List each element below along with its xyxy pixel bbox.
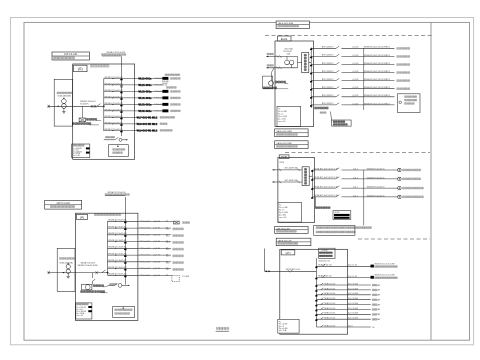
svg-text:WDZB-YJY-4x25-SC: WDZB-YJY-4x25-SC (108, 240, 127, 242)
svg-text:WDZB-YJY-5x16: WDZB-YJY-5x16 (286, 269, 300, 271)
svg-text:NDB1LE-63 C16: NDB1LE-63 C16 (318, 264, 331, 266)
svg-text:NDB1-63 C16: NDB1-63 C16 (324, 308, 335, 310)
svg-text:1.5 3kW: 1.5 3kW (182, 276, 189, 278)
svg-text:NDB1-63 C16: NDB1-63 C16 (324, 313, 335, 315)
svg-text:(L)1.36: (L)1.36 (153, 241, 160, 243)
svg-text:(L)1.0: (L)1.0 (348, 325, 353, 327)
svg-text:Kx = 0.8: Kx = 0.8 (77, 309, 83, 311)
svg-text:Kx = 0.8: Kx = 0.8 (73, 150, 79, 152)
svg-text:(L)1.1: (L)1.1 (353, 168, 358, 170)
svg-text:WL31-G01a: WL31-G01a (138, 90, 152, 93)
svg-text:(L)1.36: (L)1.36 (153, 234, 160, 236)
svg-text:WDZB-YJY-4x25-SC: WDZB-YJY-4x25-SC (105, 96, 124, 98)
svg-text:XL1: XL1 (166, 229, 169, 231)
svg-text:WL7-G01-W1 M2.2: WL7-G01-W1 M2.2 (137, 116, 158, 119)
svg-text:WDZT-AT1: WDZT-AT1 (285, 47, 294, 50)
svg-text:1AT1: 1AT1 (285, 252, 291, 255)
svg-text:(L)1.36: (L)1.36 (153, 228, 160, 230)
svg-text:(L)1.36: (L)1.36 (153, 275, 160, 277)
svg-text:B1R C65N 1P: B1R C65N 1P (322, 47, 334, 49)
svg-text:YJY-4x16: YJY-4x16 (154, 110, 163, 112)
svg-text:(L)1.36: (L)1.36 (353, 55, 359, 57)
svg-text:Pjs = 282 kW: Pjs = 282 kW (77, 311, 87, 313)
svg-text:(L)1.5 1.36: (L)1.5 1.36 (348, 265, 357, 267)
svg-text:WDZB-BYJ-3x2.5-SC15 1.36: WDZB-BYJ-3x2.5-SC15 1.36 (314, 186, 338, 188)
svg-text:NZ7-63/4P 63A: NZ7-63/4P 63A (285, 179, 298, 182)
svg-text:NDB1-63 C16: NDB1-63 C16 (324, 325, 335, 327)
svg-text:cos = 0.9: cos = 0.9 (278, 121, 285, 123)
svg-text:(L)1.36: (L)1.36 (153, 268, 160, 270)
svg-text:(L)1.1: (L)1.1 (353, 195, 358, 197)
svg-text:SCB13-630kVA: SCB13-630kVA (59, 262, 73, 265)
svg-text:WDWE-BYJ-3x2.5-SC15 WE/CC: WDWE-BYJ-3x2.5-SC15 WE/CC (364, 47, 391, 49)
svg-text:YJY-5x6-SC: YJY-5x6-SC (139, 255, 151, 257)
svg-text:XL3: XL3 (166, 242, 169, 244)
svg-text:WDZB-YJY-4x25-SC: WDZB-YJY-4x25-SC (108, 254, 127, 256)
svg-text:cos = 0.9: cos = 0.9 (77, 315, 84, 317)
svg-text:YJY-5x6-SC: YJY-5x6-SC (139, 234, 151, 236)
svg-text:ELA1: ELA1 (281, 37, 288, 41)
svg-text:YJY-5x6-SC: YJY-5x6-SC (139, 261, 151, 263)
svg-text:(L)1.36: (L)1.36 (153, 255, 160, 257)
svg-text:WL8-G01-W1 M2.2: WL8-G01-W1 M2.2 (137, 123, 158, 126)
svg-text:(L)1.0 0.5kW: (L)1.0 0.5kW (348, 293, 358, 295)
svg-text:WDZB-YJY-4x25-SC: WDZB-YJY-4x25-SC (108, 220, 127, 222)
svg-text:Pe = 352 kW: Pe = 352 kW (77, 307, 87, 309)
svg-text:WDZB-YJY-4x25-SC: WDZB-YJY-4x25-SC (105, 90, 124, 92)
svg-text:B1R C65N 1P: B1R C65N 1P (322, 55, 334, 57)
svg-text:SC100 FC: SC100 FC (80, 103, 89, 105)
svg-text:WDWE-BYJ-3x2.5-SC15 WE/CC: WDWE-BYJ-3x2.5-SC15 WE/CC (364, 71, 391, 73)
svg-text:WL11-G01a: WL11-G01a (138, 77, 152, 80)
svg-text:(L)1.0 0.5kW: (L)1.0 0.5kW (348, 298, 358, 300)
svg-text:(L)1.36: (L)1.36 (353, 47, 359, 49)
svg-text:WDZB-YJY-4x25-SC: WDZB-YJY-4x25-SC (105, 116, 124, 118)
svg-text:(L)1.1: (L)1.1 (353, 187, 358, 189)
svg-text:NDB1-63 C25: NDB1-63 C25 (319, 260, 330, 262)
svg-text:NDB1-63 C16: NDB1-63 C16 (324, 303, 335, 305)
svg-text:(G): (G) (78, 67, 83, 71)
svg-text:WDZB-BYJ-3x4-SC15: WDZB-BYJ-3x4-SC15 (367, 195, 385, 197)
svg-text:XL7: XL7 (166, 269, 169, 271)
svg-text:WL9-G01-W1 M2.2: WL9-G01-W1 M2.2 (137, 129, 158, 132)
svg-text:WDZB-YJY-4x25-SC: WDZB-YJY-4x25-SC (108, 267, 127, 269)
svg-text:(L)1.36: (L)1.36 (353, 63, 359, 65)
svg-text:NDB1-63 C16: NDB1-63 C16 (324, 288, 335, 290)
svg-text:XL4: XL4 (166, 249, 169, 251)
svg-text:IP55: IP55 (280, 162, 285, 164)
svg-text:WDZB-BYJ-3x4-SC15: WDZB-BYJ-3x4-SC15 (367, 187, 385, 189)
svg-text:WDZB-BYJ-3x4-SC15: WDZB-BYJ-3x4-SC15 (367, 168, 385, 170)
svg-text:YJY-5x6-SC: YJY-5x6-SC (139, 228, 151, 230)
svg-text:B1R C65N 1P: B1R C65N 1P (322, 79, 334, 81)
svg-text:1ALE-G01-XRE: 1ALE-G01-XRE (278, 22, 294, 25)
svg-text:WDZB-BYJ-3x4-SC15: WDZB-BYJ-3x4-SC15 (367, 177, 385, 179)
svg-text:(L)1.36: (L)1.36 (353, 79, 359, 81)
svg-text:(L)1.36: (L)1.36 (353, 95, 359, 97)
svg-text:WL21-G01a: WL21-G01a (138, 84, 152, 87)
svg-text:WDWE-BYJ-3x2.5-SC15 WE/CC: WDWE-BYJ-3x2.5-SC15 WE/CC (364, 87, 391, 89)
svg-text:YJY-4x16: YJY-4x16 (154, 104, 163, 106)
svg-text:1AP-0.4-G02: 1AP-0.4-G02 (56, 202, 70, 205)
svg-text:WL61-G01a: WL61-G01a (138, 110, 152, 113)
svg-text:(L)1.0 0.5kW: (L)1.0 0.5kW (348, 313, 358, 315)
svg-text:(L)1.1: (L)1.1 (353, 177, 358, 179)
svg-text:(L)1.5 1.36: (L)1.5 1.36 (348, 276, 357, 278)
svg-text:B1R C65N 1P: B1R C65N 1P (322, 103, 334, 105)
svg-text:WDZB-BYJ-3x2.5-SC15 1.36: WDZB-BYJ-3x2.5-SC15 1.36 (314, 177, 338, 179)
svg-text:WDZB-YJY-4x25-SC: WDZB-YJY-4x25-SC (108, 260, 127, 262)
svg-text:YJY-5x6-SC: YJY-5x6-SC (139, 248, 151, 250)
svg-text:WDWE-BYJ-3x2.5-SC15 WE/CC: WDWE-BYJ-3x2.5-SC15 WE/CC (364, 63, 391, 65)
svg-text:Pjs = 198 kW: Pjs = 198 kW (73, 151, 83, 153)
svg-text:WDWE-BYJ-3x2.5-SC15 WE/CC: WDWE-BYJ-3x2.5-SC15 WE/CC (364, 103, 391, 105)
svg-text:WDZA-YJV22-4x150: WDZA-YJV22-4x150 (108, 191, 126, 194)
svg-text:4x25/4P: 4x25/4P (162, 83, 168, 85)
svg-text:SCB13-800kVA: SCB13-800kVA (58, 95, 72, 98)
svg-text:B1R C65N 1P: B1R C65N 1P (322, 71, 334, 73)
svg-text:1ALE-G02-XRE: 1ALE-G02-XRE (276, 142, 292, 145)
svg-text:cos = 0.9: cos = 0.9 (279, 217, 286, 219)
svg-text:WDZB-YJY-4x25-SC: WDZB-YJY-4x25-SC (108, 227, 127, 229)
svg-text:YJY-5x6-SC: YJY-5x6-SC (139, 221, 151, 223)
svg-text:WDZB-YJY-4x25-SC: WDZB-YJY-4x25-SC (105, 109, 124, 111)
svg-text:B1R C65N 1P: B1R C65N 1P (322, 95, 334, 97)
svg-text:XL6: XL6 (166, 262, 169, 264)
svg-text:NDB1-63 C16: NDB1-63 C16 (324, 293, 335, 295)
svg-text:YJY-4x16: YJY-4x16 (154, 91, 163, 93)
svg-text:WL51-G01a: WL51-G01a (138, 103, 152, 106)
svg-text:WDZB-BYJ-3x2.5-SC15 WE: WDZB-BYJ-3x2.5-SC15 WE (375, 275, 395, 277)
svg-text:WDZB-YJY-4x25-SC: WDZB-YJY-4x25-SC (105, 103, 124, 105)
svg-text:(L)1.36: (L)1.36 (153, 221, 160, 223)
svg-text:x25 G4: x25 G4 (162, 85, 167, 87)
svg-text:WDZB-BYJ-3x2.5-SC15 1.36: WDZB-BYJ-3x2.5-SC15 1.36 (314, 195, 338, 197)
svg-text:NZ7-63/4P 63A: NZ7-63/4P 63A (285, 167, 298, 170)
svg-text:WDZB-YJY-4x25-SC: WDZB-YJY-4x25-SC (108, 233, 127, 235)
svg-text:YJY-5x6-SC: YJY-5x6-SC (139, 241, 151, 243)
svg-text:WDZB-BYJ-3x2.5-SC15 WE: WDZB-BYJ-3x2.5-SC15 WE (375, 263, 395, 265)
svg-text:WDZB-BYJ-3x2.5-SC15 1.36: WDZB-BYJ-3x2.5-SC15 1.36 (314, 168, 338, 170)
svg-text:Pe = 248 kW: Pe = 248 kW (73, 148, 82, 150)
svg-text:WL41-G01a: WL41-G01a (138, 97, 152, 100)
svg-text:YJY-5x6-SC: YJY-5x6-SC (139, 275, 151, 277)
svg-text:NDB1-63 C16: NDB1-63 C16 (324, 318, 335, 320)
svg-text:(L)1.36: (L)1.36 (153, 261, 160, 263)
svg-text:(L)1.0 0.5kW: (L)1.0 0.5kW (348, 283, 358, 285)
svg-text:1AP-G01a-XR: 1AP-G01a-XR (276, 227, 290, 230)
svg-text:(L)1.36: (L)1.36 (153, 248, 160, 250)
svg-text:1APE-G01-XR: 1APE-G01-XR (278, 239, 292, 242)
svg-text:(L)1.0 0.5kW: (L)1.0 0.5kW (348, 308, 358, 310)
svg-text:(L)1.0 0.5kW: (L)1.0 0.5kW (348, 288, 358, 290)
svg-text:(L)1.36: (L)1.36 (353, 103, 359, 105)
svg-text:1AP-0.4-G01: 1AP-0.4-G01 (64, 53, 78, 56)
svg-text:B1R C65N 1P: B1R C65N 1P (322, 63, 334, 65)
svg-text:(L)1.36: (L)1.36 (353, 87, 359, 89)
svg-text:YJY-5x6-SC: YJY-5x6-SC (139, 268, 151, 270)
svg-text:WDZB-YJY-4x25-SC: WDZB-YJY-4x25-SC (105, 129, 124, 131)
svg-text:NDB1LE-63 C16: NDB1LE-63 C16 (318, 276, 331, 278)
svg-text:WDZB-YJY-4x25-SC: WDZB-YJY-4x25-SC (108, 274, 127, 276)
svg-text:(P): (P) (80, 215, 84, 219)
svg-text:cos = 0.85: cos = 0.85 (73, 155, 80, 157)
svg-text:(L)1.0 0.5kW: (L)1.0 0.5kW (348, 303, 358, 305)
svg-text:WDWE-BYJ-3x2.5-SC15 WE/CC: WDWE-BYJ-3x2.5-SC15 WE/CC (364, 55, 391, 57)
svg-text:NDB1-63 C16: NDB1-63 C16 (324, 283, 335, 285)
svg-text:WDZA-YJV-4x95-SC80: WDZA-YJV-4x95-SC80 (78, 264, 98, 267)
svg-text:NDB-XBL: NDB-XBL (162, 81, 169, 83)
svg-text:XL5: XL5 (166, 256, 169, 258)
svg-text:(L)1.36: (L)1.36 (353, 71, 359, 73)
svg-text:N1: N1 (372, 327, 374, 329)
svg-text:(L)1.0 0.5kW: (L)1.0 0.5kW (348, 318, 358, 320)
svg-text:NDB1-63 C16: NDB1-63 C16 (324, 298, 335, 300)
svg-text:WDWE-BYJ-3x2.5-SC15 WE/CC: WDWE-BYJ-3x2.5-SC15 WE/CC (364, 95, 391, 97)
svg-text:WDZB-YJY-4x25-SC: WDZB-YJY-4x25-SC (105, 83, 124, 85)
svg-text:2ALE-G01-XRE: 2ALE-G01-XRE (276, 130, 292, 133)
svg-text:YJY-4x16: YJY-4x16 (154, 97, 163, 99)
svg-text:XL2: XL2 (166, 235, 169, 237)
svg-text:WDWE-BYJ-3x2.5-SC15 WE/CC: WDWE-BYJ-3x2.5-SC15 WE/CC (364, 79, 391, 81)
svg-text:WDZB-YJY-4x25-SC: WDZB-YJY-4x25-SC (105, 122, 124, 124)
svg-text:WDZB-YJY-4x25-SC: WDZB-YJY-4x25-SC (108, 247, 127, 249)
svg-text:Ijs = 12 A: Ijs = 12 A (278, 329, 287, 332)
svg-text:WDZA-YJV22-4x150: WDZA-YJV22-4x150 (107, 51, 126, 54)
svg-text:YJY-4x16: YJY-4x16 (154, 78, 163, 80)
svg-text:B1R C65N 1P: B1R C65N 1P (322, 87, 334, 89)
svg-text:WDZB-YJY-4x25-SC: WDZB-YJY-4x25-SC (105, 77, 124, 79)
